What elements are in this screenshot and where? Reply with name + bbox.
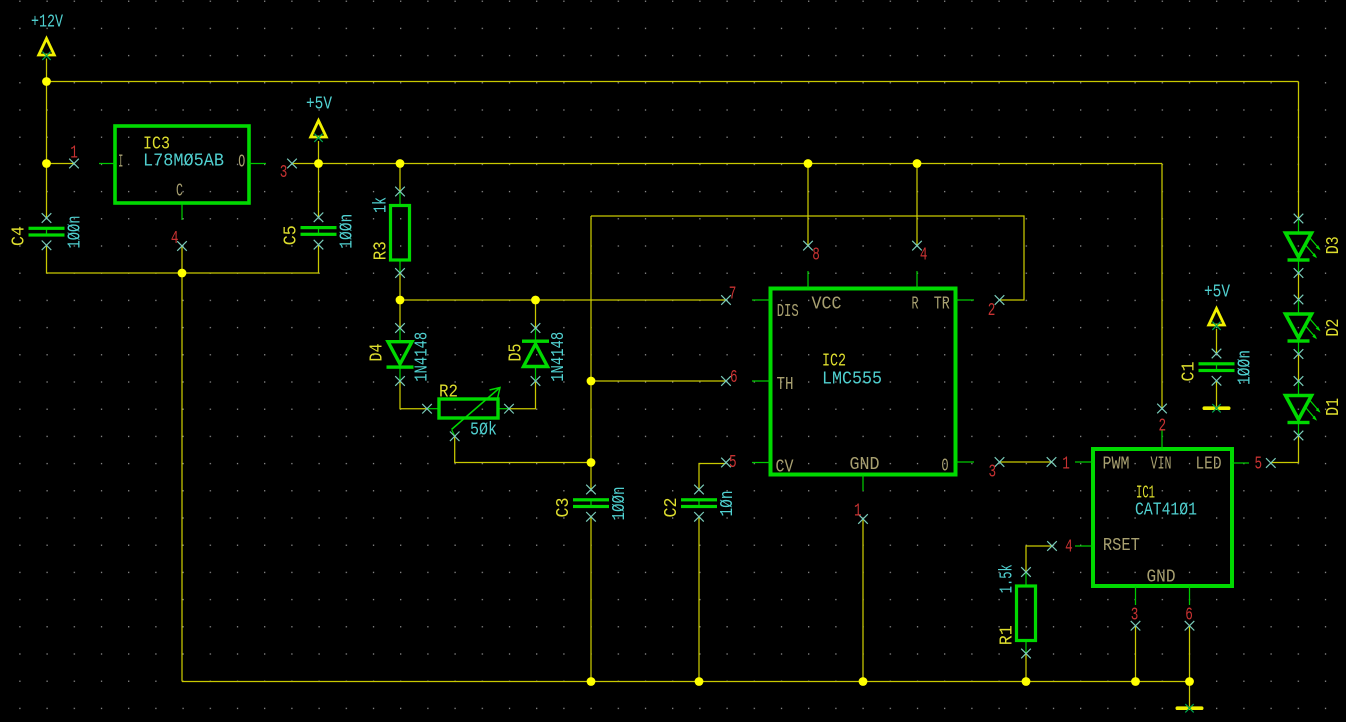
svg-text:1N4148: 1N4148 [548, 332, 569, 382]
capacitor C4 100n [46, 228, 48, 236]
wire +5V rail down to IC1 VIN [1161, 164, 1163, 409]
diode D5 1N4148 [535, 329, 537, 341]
wire TR loop [591, 216, 1024, 300]
ground symbol (bottom right) [1176, 706, 1204, 710]
op-amp-style box IC2 LMC555 [771, 289, 956, 475]
wire C4 gnd rail C5 [47, 245, 319, 273]
LED D2 [1298, 300, 1300, 314]
svg-text:C3: C3 [553, 498, 574, 518]
IC1 pin 3 x [1131, 621, 1141, 631]
svg-text:3: 3 [1131, 604, 1139, 625]
wire IC1 pin6 to bus and gnd symbol [1189, 626, 1191, 706]
wire R1 bottom to bus [1025, 654, 1027, 682]
junction pin8 tap [804, 159, 813, 168]
wire +5V rail [319, 163, 1163, 165]
wire D2 cathode to D1 anode [1298, 354, 1300, 381]
IC2 pin 8 x [803, 241, 813, 251]
svg-text:O: O [942, 456, 949, 477]
IC1 CAT4101 box [1093, 449, 1232, 586]
svg-text:CAT41Ø1: CAT41Ø1 [1135, 499, 1197, 520]
svg-text:L78MØ5AB: L78MØ5AB [143, 151, 224, 172]
junction +12V top [42, 77, 51, 86]
wire +12V supply to top rail [46, 59, 48, 82]
IC3 pin 4 x [177, 241, 187, 251]
IC1 pin 4 stub [1075, 545, 1093, 547]
svg-text:1.5k: 1.5k [997, 564, 1018, 593]
LED D1 [1298, 382, 1300, 396]
junction TH tap [587, 377, 596, 386]
IC2 pin 1 stub [862, 475, 864, 491]
junction R3 top [396, 159, 405, 168]
wire +5V symbol through node to C5 [318, 141, 320, 217]
wire IC1 pin3 to bus [1135, 626, 1137, 682]
svg-text:1ØØn: 1ØØn [609, 487, 630, 521]
resistor R3 1k [399, 192, 401, 206]
IC3 pin 1 x [69, 159, 79, 169]
svg-text:R: R [912, 293, 919, 314]
IC2 pin 2 stub [956, 299, 974, 301]
junction bus pin6 [1185, 677, 1194, 686]
svg-text:5Øk: 5Øk [470, 420, 497, 441]
svg-text:C1: C1 [1179, 362, 1200, 382]
capacitor C1 100n [1216, 364, 1218, 372]
svg-text:R1: R1 [997, 625, 1018, 645]
wire IC2 out to IC1 PWM [1000, 461, 1052, 463]
svg-text:C5: C5 [281, 225, 302, 245]
wire TH/TR vertical [590, 216, 592, 463]
wire +12V rail down to D3 [1298, 82, 1300, 219]
IC2 pin 3 stub [956, 461, 974, 463]
svg-text:VCC: VCC [812, 293, 842, 314]
IC2 pin 6 stub [752, 380, 770, 382]
svg-text:1Øn: 1Øn [717, 491, 738, 517]
svg-text:C: C [176, 181, 183, 202]
IC3 pin I stub [99, 163, 115, 165]
junction IC3 input [42, 159, 51, 168]
potentiometer R2 50k [427, 408, 439, 410]
wire IC3 O to +5V node [292, 163, 319, 165]
svg-text:2: 2 [988, 300, 996, 321]
svg-text:LED: LED [1196, 453, 1222, 474]
IC2 pin 2 x [995, 295, 1005, 305]
junction +5V node [314, 159, 323, 168]
svg-text:7: 7 [729, 284, 737, 305]
IC1 pin 3 stub [1135, 586, 1137, 605]
svg-text:1: 1 [1062, 454, 1070, 475]
IC1 pin 5 x [1266, 458, 1276, 468]
svg-text:VIN: VIN [1151, 453, 1172, 474]
wire DIS node down to D4 [399, 300, 401, 328]
svg-text:+5V: +5V [306, 94, 332, 115]
svg-text:D5: D5 [506, 344, 527, 362]
IC2 pin 5 x [721, 458, 731, 468]
IC2 pin 1 x [858, 514, 868, 524]
svg-text:R2: R2 [439, 382, 458, 403]
IC1 pin 2 stub [1161, 430, 1163, 449]
svg-text:3: 3 [989, 461, 997, 482]
wire +5V to R3 top [399, 164, 401, 192]
svg-text:LMC555: LMC555 [822, 368, 882, 389]
wire +12V down left (to IC3 IN / C4) [46, 82, 48, 219]
junction bus C2 [695, 677, 704, 686]
svg-text:RSET: RSET [1103, 535, 1140, 556]
diode D4 1N4148 [399, 329, 401, 342]
IC1 pin 6 stub [1189, 586, 1191, 605]
IC1 pin 1 x [1047, 457, 1057, 467]
wire top +12V rail [47, 81, 1299, 83]
svg-text:GND: GND [1147, 566, 1176, 587]
IC3 pin 3 x [287, 159, 297, 169]
IC2 pin 7 x [721, 295, 731, 305]
supply +5V (regulator output) [311, 121, 327, 138]
supply +12V [39, 39, 55, 56]
capacitor C2 10n [698, 500, 700, 508]
capacitor C5 100n [318, 227, 320, 235]
svg-text:1ØØn: 1ØØn [1235, 350, 1256, 385]
svg-text:2: 2 [1159, 416, 1167, 437]
svg-text:R3: R3 [371, 241, 392, 260]
wire R2 wiper to TH node [455, 437, 591, 463]
IC2 pin 6 x [721, 376, 731, 386]
svg-text:5: 5 [729, 452, 737, 473]
svg-text:4: 4 [920, 245, 928, 266]
wire CV to C2 [699, 464, 726, 490]
IC2 pin 4 x [912, 241, 922, 251]
wire C3 to gnd bus [590, 517, 592, 682]
svg-text:D3: D3 [1323, 236, 1344, 254]
wire +5V to C1 [1216, 329, 1218, 354]
wire to IC3 pin I [47, 163, 75, 165]
svg-text:1N4148: 1N4148 [411, 332, 432, 382]
wire D1 cathode to IC1 LED pin [1271, 436, 1299, 463]
junction gnd rail left [178, 269, 187, 278]
svg-text:4: 4 [171, 228, 179, 249]
wire TH to IC2 pin 6 [591, 380, 726, 382]
IC1 pin 2 x [1157, 404, 1167, 414]
supply +5V (at C1) [1209, 309, 1225, 326]
wire C2 to gnd bus [698, 517, 700, 682]
svg-text:DIS: DIS [777, 301, 799, 322]
wire bottom gnd bus [182, 681, 1190, 683]
svg-text:TR: TR [934, 293, 950, 314]
junction bus pin3 [1131, 677, 1140, 686]
IC1 pin 1 stub [1075, 461, 1093, 463]
svg-text:8: 8 [812, 245, 820, 266]
wire +5V down to IC2 pin 8 [807, 164, 809, 246]
IC3 L78M05AB box [115, 126, 249, 203]
ground symbol (below C1) [1203, 406, 1231, 410]
svg-text:+5V: +5V [1204, 282, 1230, 303]
svg-text:D4: D4 [367, 344, 388, 362]
capacitor C3 100n [590, 500, 592, 508]
svg-text:I: I [118, 152, 123, 173]
svg-text:1: 1 [70, 143, 78, 164]
junction pin4 tap [913, 159, 922, 168]
svg-text:1: 1 [854, 501, 862, 522]
svg-text:1ØØn: 1ØØn [337, 214, 358, 249]
resistor R1 1.5k [1025, 573, 1027, 587]
svg-text:D2: D2 [1323, 319, 1344, 337]
IC2 pin 8 stub [807, 271, 809, 288]
svg-text:O: O [238, 152, 245, 173]
LED D3 [1298, 219, 1300, 233]
svg-text:1k: 1k [371, 197, 392, 213]
junction DIS R3/D4 [396, 296, 405, 305]
svg-text:C2: C2 [661, 498, 682, 518]
wire TH node down to C3 [590, 463, 592, 490]
wire D3 cathode to D2 anode [1298, 273, 1300, 300]
svg-text:6: 6 [1185, 604, 1193, 625]
svg-text:6: 6 [730, 367, 738, 388]
wire D5 to R2 right [510, 381, 536, 409]
IC1 pin 4 x [1047, 541, 1057, 551]
wire C1 to gnd symbol [1216, 381, 1218, 406]
wire D4 to R2 left [400, 381, 427, 409]
svg-text:TH: TH [777, 374, 794, 395]
svg-text:PWM: PWM [1103, 453, 1130, 474]
junction TH/C3/R2 [587, 458, 596, 467]
svg-text:C4: C4 [9, 226, 30, 246]
IC2 pin 5 stub [752, 462, 770, 464]
wire IC3 C pin down to gnd bus [181, 246, 183, 682]
IC1 pin 6 x [1185, 621, 1195, 631]
svg-text:3: 3 [280, 162, 288, 183]
svg-text:4: 4 [1065, 537, 1073, 558]
junction bus R1 [1022, 677, 1031, 686]
IC2 pin 4 stub [916, 271, 918, 288]
svg-text:5: 5 [1255, 454, 1263, 475]
wire IC2 GND pin to bus [862, 519, 864, 682]
IC2 pin 3 x [995, 457, 1005, 467]
junction DIS D5 [531, 296, 540, 305]
junction bus IC2 gnd [859, 677, 868, 686]
svg-text:+12V: +12V [31, 12, 63, 33]
IC3 pin C stub [181, 204, 183, 220]
svg-text:1ØØn: 1ØØn [65, 216, 86, 249]
IC2 pin 7 stub [752, 299, 770, 301]
svg-text:GND: GND [850, 454, 880, 475]
wire DIS horizontal to pin 7 [400, 299, 726, 301]
svg-text:CV: CV [776, 457, 794, 478]
junction bus C3 [587, 677, 596, 686]
IC3 pin O stub [249, 163, 266, 165]
wire +5V down to IC2 pin 4 [916, 164, 918, 246]
wire RSET to R1 top [1026, 546, 1052, 574]
wire R3 bottom to DIS node [399, 273, 401, 301]
IC1 pin 5 stub [1232, 462, 1249, 464]
wire DIS node down to D5 [535, 300, 537, 328]
svg-text:D1: D1 [1323, 398, 1344, 416]
